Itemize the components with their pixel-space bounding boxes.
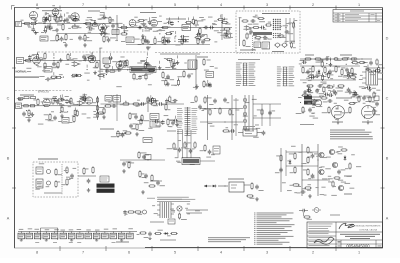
wire xyxy=(252,36,254,53)
wire xyxy=(40,228,42,240)
resistor R2aRh6 xyxy=(87,56,94,60)
resistor R69 xyxy=(335,65,340,73)
wire xyxy=(195,55,197,90)
ground TB1xg1 xyxy=(43,17,47,21)
capacitor C39 xyxy=(308,108,314,115)
wire xyxy=(116,94,118,121)
wire xyxy=(89,23,91,26)
resistor R120 xyxy=(111,130,119,138)
wire xyxy=(302,179,330,181)
resistor R4 xyxy=(56,16,62,24)
wire xyxy=(120,159,165,161)
resistor R121 xyxy=(119,132,132,136)
resistor TB5xR5 xyxy=(175,38,183,46)
zone tick top 2 xyxy=(151,6,153,10)
resistor R28 xyxy=(93,61,98,69)
capacitor C45 xyxy=(226,129,235,133)
resistor R101 xyxy=(137,232,147,235)
capacitor C44 xyxy=(262,131,266,136)
wire xyxy=(61,94,63,97)
resistor PW6R3 xyxy=(378,66,384,74)
lamp NE1 xyxy=(312,208,321,213)
wire xyxy=(173,59,175,62)
ground gf13 xyxy=(120,239,123,241)
label title cell eng xyxy=(309,224,333,232)
resistor R57 xyxy=(141,114,150,122)
capacitor C33 xyxy=(268,110,275,115)
connector CN3 xyxy=(277,67,295,87)
resistor R2cRh1 xyxy=(51,76,62,79)
wire xyxy=(61,164,63,195)
resistor R93 xyxy=(55,180,60,188)
resistor R2aR1 xyxy=(32,53,38,60)
tube V4A xyxy=(33,57,41,65)
resistor R2cRh5 xyxy=(97,74,104,76)
label psu 10 xyxy=(95,229,100,232)
zone tick left 0 xyxy=(12,67,16,69)
resistor R117 xyxy=(316,97,327,100)
zone tick bottom 4 xyxy=(243,246,245,251)
label stacked dark b xyxy=(304,101,312,105)
svg-text:3: 3 xyxy=(266,3,268,7)
tube V1A xyxy=(30,8,40,19)
capacitor PW5C3 xyxy=(334,91,343,96)
resistor R136 xyxy=(184,141,192,148)
resistor R39 xyxy=(31,97,36,99)
capacitor PW3C2 xyxy=(315,89,324,95)
notes list 2 xyxy=(208,237,250,242)
resistor R60 xyxy=(165,103,171,111)
wire xyxy=(206,35,208,38)
transistor Q2 xyxy=(319,167,324,175)
resistor R40 xyxy=(19,105,29,109)
capacitor C73 xyxy=(178,147,184,152)
svg-text:3: 3 xyxy=(266,251,268,255)
resistor R2bR2 xyxy=(144,62,146,69)
svg-text:EFFECTS: EFFECTS xyxy=(38,91,49,94)
wire xyxy=(286,165,318,167)
resistor R116 xyxy=(376,59,382,66)
node R2dn4 xyxy=(209,84,210,85)
label label midc2 xyxy=(150,181,162,182)
resistor R70 xyxy=(341,68,348,76)
filter cap CF3 xyxy=(34,232,41,239)
wire xyxy=(150,95,152,98)
resistor R51 xyxy=(28,109,30,117)
wire xyxy=(45,12,47,15)
capacitor C9 xyxy=(167,21,174,28)
ground g16 xyxy=(255,197,259,201)
ground g2 xyxy=(64,43,68,47)
capacitor C1 xyxy=(43,25,50,32)
wire xyxy=(352,72,354,75)
node TB5xn4 xyxy=(174,41,175,42)
wire xyxy=(105,70,107,73)
wire xyxy=(116,15,118,40)
capacitor TB2xC0 xyxy=(31,27,38,33)
resistor R90 xyxy=(251,182,253,190)
notes list xyxy=(257,213,295,245)
capacitor M4Ch2 xyxy=(154,120,163,124)
resistor R25 xyxy=(44,62,46,70)
node TB3xn4 xyxy=(178,21,179,22)
resistor R115 xyxy=(355,61,366,64)
label label fs inner xyxy=(44,193,62,194)
label title scale xyxy=(378,245,382,248)
svg-text:6: 6 xyxy=(128,3,130,7)
capacitor M4Ch4 xyxy=(173,119,182,123)
diode D4 xyxy=(164,232,169,235)
resistor TB3xRh8 xyxy=(221,19,228,24)
node TB6xn0 xyxy=(175,35,176,36)
resistor TB1xR5 xyxy=(54,14,62,22)
ground M1g4 xyxy=(68,99,72,103)
node n1 xyxy=(43,23,44,24)
node PW1n1 xyxy=(317,61,318,62)
tube V2B xyxy=(99,24,110,32)
title block frame xyxy=(307,222,383,248)
resistor R65 xyxy=(350,58,358,60)
ground g5 xyxy=(46,77,50,81)
ground TB1xg0 xyxy=(34,18,38,22)
capacitor C43 xyxy=(297,190,306,194)
fuse F1 xyxy=(333,57,339,61)
label revision row 3b xyxy=(345,19,358,22)
ground g8 xyxy=(102,115,106,119)
zone tick left 1 xyxy=(12,127,16,129)
resistor R63 xyxy=(314,58,322,61)
zone tick left 2 xyxy=(12,187,16,189)
wire xyxy=(300,58,372,60)
label title cell row3 xyxy=(309,240,327,243)
jack J3 send xyxy=(274,43,281,48)
resistor M2R5 xyxy=(74,109,76,116)
resistor R44 xyxy=(61,106,67,114)
label revision row 2b xyxy=(345,16,361,19)
node TB4xn1 xyxy=(124,32,125,33)
wire xyxy=(53,53,55,56)
wire xyxy=(329,57,331,60)
regulator U5 xyxy=(238,129,262,136)
capacitor M3C3 xyxy=(161,99,168,106)
wire xyxy=(301,144,303,196)
label psu b8 xyxy=(77,241,81,244)
wire xyxy=(58,35,60,38)
svg-text:1: 1 xyxy=(358,3,360,7)
capacitor C24 xyxy=(56,100,64,106)
label label psu tail xyxy=(160,240,176,241)
filter cap CF12 xyxy=(110,232,117,239)
svg-text:A: A xyxy=(7,216,10,220)
node M4n1 xyxy=(152,121,153,122)
connector pin matrix J2 xyxy=(273,19,281,30)
wire xyxy=(59,95,61,98)
wire xyxy=(22,23,119,25)
wire xyxy=(56,34,58,36)
resistor PW4R2 xyxy=(313,99,320,106)
wire xyxy=(177,17,179,20)
ground R2ag7 xyxy=(91,57,95,61)
node TB5xn0 xyxy=(58,39,59,40)
capacitor PW2Ch2 xyxy=(314,74,319,78)
resistor R134 xyxy=(229,108,234,115)
capacitor TB5xCh3 xyxy=(162,40,171,44)
separator line xyxy=(38,51,148,53)
resistor R19b xyxy=(239,17,249,22)
potentiometer P1 volume xyxy=(71,24,81,28)
label group mid right fill xyxy=(203,99,261,138)
capacitor C64 xyxy=(156,181,165,187)
node R2fn0 xyxy=(87,69,88,70)
label label mid row xyxy=(100,129,114,130)
capacitor PW5Ch6 xyxy=(353,93,361,97)
resistor R77 xyxy=(296,106,304,114)
resistor R2 xyxy=(27,22,37,26)
label psu b3 xyxy=(35,241,39,244)
box mid1 xyxy=(150,121,160,127)
node R2an2 xyxy=(53,57,54,58)
wire xyxy=(100,27,102,30)
relay K6 xyxy=(103,58,111,64)
wire xyxy=(103,12,105,15)
label revision row 1 xyxy=(335,13,341,16)
node TB5xn7 xyxy=(199,39,200,40)
wire xyxy=(353,90,355,93)
resistor R34 xyxy=(165,60,173,68)
label psu b5 xyxy=(53,241,57,244)
label label loop return xyxy=(272,51,284,52)
wire xyxy=(37,52,39,55)
label more drive black xyxy=(97,189,115,193)
tube V7 phase inverter xyxy=(314,99,321,106)
filter cap CF9 xyxy=(85,232,92,239)
label psu 7 xyxy=(69,228,74,231)
wire xyxy=(146,53,148,56)
resistor PW6Rh2 xyxy=(368,70,381,73)
node n3d xyxy=(162,69,163,70)
capacitor C12 xyxy=(141,39,150,44)
label title sheet xyxy=(338,245,341,248)
resistor R8 xyxy=(50,34,58,42)
node nm2 xyxy=(214,108,215,109)
resistor PW5Rh0 xyxy=(298,94,309,98)
wire xyxy=(190,130,192,158)
relay K3 xyxy=(254,42,261,48)
label channel select black xyxy=(97,184,115,188)
node n2b xyxy=(162,27,163,28)
wire xyxy=(333,84,335,87)
capacitor PW3C0 xyxy=(303,88,310,94)
wire xyxy=(168,17,170,20)
wire xyxy=(182,130,184,158)
label separator label xyxy=(160,54,200,55)
capacitor PW2Ch1 xyxy=(306,76,315,80)
label label b+ xyxy=(305,55,314,56)
node n5 xyxy=(224,185,225,186)
dashed enclosure effects loop xyxy=(236,11,300,53)
node n3a xyxy=(53,60,54,61)
wire xyxy=(310,71,312,74)
wire xyxy=(70,53,72,56)
wire xyxy=(177,78,179,81)
node nm3 xyxy=(224,121,225,122)
wire xyxy=(24,60,101,62)
zone tick bottom 0 xyxy=(59,246,61,251)
capacitor C74 xyxy=(189,148,195,153)
label title cell row1 xyxy=(309,232,329,235)
resistor R126 xyxy=(144,182,156,187)
resistor R89 xyxy=(200,144,206,152)
label group power amp xyxy=(282,146,361,196)
resistor TB3xRh5 xyxy=(185,21,192,24)
node n3b xyxy=(83,60,84,61)
capacitor TB6xC4 xyxy=(225,32,233,38)
resistor R113 xyxy=(337,149,348,152)
ground TB1yg5 xyxy=(101,26,105,30)
filter cap CF7 xyxy=(68,232,75,239)
ground TB3xg1 xyxy=(142,22,146,26)
ground M3g2 xyxy=(154,99,158,103)
label revision row 2 xyxy=(335,16,340,19)
wire xyxy=(118,65,120,68)
capacitor C60 xyxy=(121,132,127,137)
node n1b xyxy=(83,23,84,24)
capacitor C15c xyxy=(249,30,257,37)
resistor R32 xyxy=(145,73,147,81)
resistor R99 xyxy=(134,211,142,215)
resistor R132 xyxy=(209,108,211,115)
resistor TB2xR2 xyxy=(41,26,47,33)
filter cap CF8 xyxy=(77,232,84,239)
zone tick top 5 xyxy=(289,6,291,10)
label caution note xyxy=(157,197,195,202)
node n2a xyxy=(139,27,140,28)
ground gf4 xyxy=(45,239,48,241)
capacitor C61 xyxy=(142,154,149,159)
zone tick top 4 xyxy=(243,6,245,10)
capacitor C22 xyxy=(208,83,212,88)
resistor R71 xyxy=(351,67,356,75)
capacitor C10 xyxy=(204,26,209,30)
resistor TB1xRh9 xyxy=(72,19,79,21)
wire xyxy=(86,65,88,68)
svg-text:C: C xyxy=(386,96,389,100)
label group fx loop box xyxy=(243,16,297,50)
resistor R7 xyxy=(104,16,111,24)
label label footswitch xyxy=(38,159,58,160)
wire xyxy=(200,160,215,162)
node n2 xyxy=(361,58,362,59)
label psu 8 xyxy=(77,228,82,231)
ground g14 xyxy=(366,120,370,124)
border frame right xyxy=(382,8,384,249)
driver block DR1 xyxy=(130,67,156,73)
wire xyxy=(103,25,105,28)
resistor R76 xyxy=(345,106,351,114)
wire xyxy=(90,52,92,55)
ground M4g5 xyxy=(175,122,179,126)
resistor R13 xyxy=(195,19,203,27)
connector CN2 xyxy=(236,63,256,86)
capacitor TB1xC8 xyxy=(74,17,78,22)
resistor R26 xyxy=(52,61,60,69)
ground PW7g2 xyxy=(368,87,372,91)
capacitor C6 xyxy=(107,37,116,42)
wire xyxy=(44,21,46,24)
pin header CN4 xyxy=(185,107,191,136)
resistor R97 xyxy=(92,166,94,174)
resistor R21b xyxy=(289,22,295,29)
wire xyxy=(175,31,177,34)
capacitor C17 xyxy=(82,54,90,59)
resistor M3R1 xyxy=(145,97,154,104)
wire xyxy=(192,16,194,19)
resistor R88 xyxy=(222,127,230,132)
capacitor C32 xyxy=(153,102,163,106)
capacitor C3 xyxy=(89,19,97,25)
wire xyxy=(316,71,318,74)
label label mains2 xyxy=(186,213,202,214)
wire xyxy=(308,86,310,89)
capacitor C15e xyxy=(285,30,294,34)
label psu b12 xyxy=(112,241,116,244)
jack J1 input xyxy=(16,22,22,27)
capacitor C48 xyxy=(66,174,74,181)
capacitor PW5Ch2 xyxy=(328,91,335,97)
capacitor TB6xCh3 xyxy=(196,33,205,37)
capacitor M3Ch0 xyxy=(148,98,153,102)
revision table xyxy=(333,10,383,23)
resistor R72 xyxy=(303,82,314,87)
capacitor C46 xyxy=(208,150,215,156)
wire xyxy=(269,104,271,126)
resistor R137 xyxy=(194,141,196,148)
ground PW1g4 xyxy=(329,62,333,66)
label revision row 3c xyxy=(377,19,380,22)
wire xyxy=(367,65,369,68)
svg-text:CORONA, CA USA: CORONA, CA USA xyxy=(359,229,378,232)
svg-text:7: 7 xyxy=(82,3,84,7)
label label relay drv xyxy=(228,179,244,180)
ground g17 xyxy=(87,188,91,192)
relay K4 xyxy=(262,42,270,49)
resistor M1Rh5 xyxy=(79,98,87,101)
resistor R82 xyxy=(290,166,297,174)
label group power mid fill xyxy=(309,66,382,97)
label label above tubes xyxy=(336,98,352,99)
resistor R21c xyxy=(278,35,287,38)
resistor R19 xyxy=(248,24,260,29)
wire xyxy=(78,175,96,177)
zone tick bottom 2 xyxy=(151,246,153,251)
relay K10 xyxy=(150,114,159,120)
capacitor M1Ch3 xyxy=(60,98,69,102)
wire xyxy=(50,23,52,26)
connector CN5 xyxy=(213,146,220,154)
resistor R16 xyxy=(149,37,156,45)
capacitor R2eCh0 xyxy=(108,56,113,60)
label group top band fill3 xyxy=(70,37,218,48)
arrow footswitch xyxy=(204,185,211,188)
resistor M1R7 xyxy=(80,95,86,102)
capacitor C71 xyxy=(209,99,217,106)
wire xyxy=(177,130,179,158)
label label ohms xyxy=(116,242,129,243)
wire xyxy=(84,34,86,36)
resistor R62 xyxy=(300,58,312,61)
resistor R83 xyxy=(276,154,282,162)
resistor R80 xyxy=(303,168,309,176)
